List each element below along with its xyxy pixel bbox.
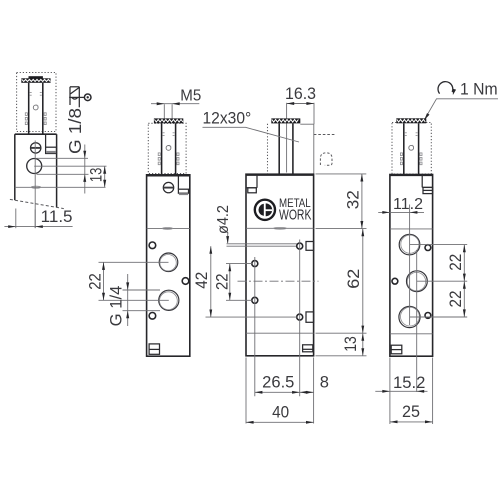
center hole H3c (252, 297, 258, 303)
dimension 22 (center) line (229, 264, 231, 301)
view2 stem (162, 123, 176, 175)
svg-text:1 Nm: 1 Nm (460, 80, 498, 98)
svg-text:22: 22 (86, 273, 104, 290)
view2 split line (147, 228, 190, 230)
view2 bottom-left latch rect (149, 344, 159, 354)
svg-text:G 1/4: G 1/4 (107, 286, 125, 327)
view2 step detail (178, 176, 188, 195)
view2 body outline (147, 175, 190, 356)
view2 port2 centerline ext (99, 299, 169, 301)
label G 1/4 (107, 286, 125, 327)
left view knurled knob (21, 76, 50, 83)
right port leader a (410, 244, 468, 246)
center ext lines for 22 (226, 264, 252, 301)
center pad square lower (306, 312, 314, 322)
dimension 13 (center) text (342, 336, 360, 352)
dimension 22 (right upper) text (447, 254, 465, 271)
view2 M5 ext lines (164, 104, 172, 118)
right small hole H4c (425, 313, 431, 319)
center ext line bottom right (316, 355, 367, 357)
view2 knurled knob (154, 118, 183, 123)
logo text METAL (279, 198, 311, 210)
svg-text:G 1/8: G 1/8 (65, 108, 85, 154)
label M5 (180, 88, 201, 105)
center bottom-right latch rect (303, 345, 313, 352)
center pad square upper (306, 242, 314, 251)
left view step detail (46, 135, 57, 154)
center hole H3b (252, 261, 258, 267)
dimension 40 text (272, 404, 289, 422)
G 1/8 arrow upper (83, 151, 86, 159)
view2 body top edge thick (147, 175, 190, 177)
Metal Work logo mark (255, 200, 275, 220)
label o4.2 (215, 205, 232, 234)
dimension 22 (right upper) arrows (463, 245, 466, 282)
label 1 Nm (460, 80, 498, 98)
center ghost top line (300, 123, 314, 125)
dimension 25 text (402, 403, 420, 421)
dimension 42 text (193, 272, 211, 289)
right small hole H4b (392, 278, 398, 284)
svg-text:11.2: 11.2 (393, 196, 423, 213)
dimension 11.5 line (4, 226, 72, 228)
dimension 13 line (104, 166, 106, 187)
left view bottom port ellipse (31, 186, 40, 188)
dimension 32 text (344, 190, 362, 209)
dimension 25 line (390, 421, 433, 423)
dimension 11.5 arrows (8, 225, 43, 228)
left view port circle G1/8 (27, 159, 42, 174)
left view vertical centerline (34, 141, 36, 229)
left view body bottom face line (15, 186, 106, 188)
view2 port1 centerline ext (99, 261, 169, 263)
center bottom ext lines (246, 358, 314, 424)
center ext line mid right (316, 228, 367, 230)
center split line (246, 227, 314, 229)
dimension 15.2 line (375, 390, 427, 392)
left view ghost solenoid outline (dashed) (17, 73, 56, 132)
dimension 22 (view2) arrows (102, 262, 105, 300)
dimension 13 text (88, 168, 106, 183)
dimension 62 arrows (361, 229, 364, 334)
right body top edge thick (390, 174, 433, 176)
view2 small hole H2b (182, 278, 189, 285)
right port circle P4c (399, 306, 420, 327)
left view break line (dashed slant) (10, 199, 64, 208)
torque symbol arc (438, 82, 456, 95)
view2 port circle P2a (159, 253, 178, 272)
svg-text:13: 13 (342, 336, 360, 352)
right bottom-left latch rect (391, 345, 402, 354)
right vertical centerline b (416, 250, 418, 392)
center stem (279, 123, 293, 174)
dimension 40 line (246, 421, 314, 423)
center hole centerline left (254, 257, 256, 396)
dimension 15.2 arrows (382, 390, 424, 393)
center ghost dashed hook (320, 153, 332, 165)
svg-text:26.5: 26.5 (262, 374, 294, 392)
1 Nm leader (425, 99, 498, 119)
center ghost left edge (dashed) (267, 124, 269, 174)
dimension 40 arrows (246, 421, 314, 424)
center hole centerline right (299, 240, 301, 397)
dimension 42 arrows (209, 246, 212, 317)
right bottom ext lines (390, 358, 433, 425)
view2 small hole H2a (149, 242, 156, 249)
G 1/4 leader line (127, 274, 129, 326)
center step detail (246, 175, 257, 193)
dimension 11.5 ext lines (16, 209, 35, 229)
dimension 22 (right upper) line (463, 245, 465, 282)
dimension 32 line (361, 174, 363, 229)
svg-text:13: 13 (88, 168, 106, 183)
dimension 62 text (345, 269, 363, 289)
manual override symbol (69, 87, 91, 108)
dimension 26.5 line (255, 391, 300, 393)
o4.2 leader arrow (226, 233, 229, 244)
dimension 22 (right lower) arrows (463, 281, 466, 317)
dimension 25 arrows (390, 420, 433, 423)
right split line lower (390, 333, 433, 335)
svg-text:12x30°: 12x30° (203, 110, 252, 128)
logo text WORK (279, 208, 312, 224)
right port leader b (417, 280, 467, 282)
dimension 11.2 line (378, 211, 424, 213)
center 16.3 ext lines (287, 103, 314, 124)
dimension 32 arrows (360, 174, 363, 229)
G 1/8 arrow lower (83, 174, 86, 182)
svg-text:25: 25 (402, 403, 420, 421)
center ghost right edge (313, 124, 315, 173)
right stem details (400, 133, 422, 165)
dimension 22 (right lower) text (447, 291, 465, 308)
dimension 26.5 arrows (255, 391, 300, 394)
svg-text:22: 22 (447, 291, 465, 308)
svg-text:32: 32 (344, 190, 362, 209)
dimension 8 line (300, 391, 314, 393)
svg-text:22: 22 (214, 274, 232, 291)
dimension 15.2 text (393, 374, 425, 392)
label G 1/8 (65, 108, 85, 154)
dimension 13 (center) arrows (361, 333, 364, 356)
center ext line top right (316, 173, 367, 175)
right vertical centerline a (409, 205, 411, 326)
right step detail (422, 175, 432, 193)
right ghost outline (dashed) (392, 123, 431, 175)
view2 ghost outline (dashed) (148, 123, 186, 173)
center 16.3 dim line (287, 103, 314, 105)
view2 M5 dim line (151, 103, 199, 105)
svg-text:WORK: WORK (279, 208, 312, 224)
center stem centerline (286, 110, 288, 173)
right port circle P4b (407, 271, 428, 292)
right split line upper (390, 228, 433, 230)
center hole H3d (297, 314, 303, 320)
left view port top tangent line (37, 157, 89, 159)
center ext line y317 (206, 316, 297, 318)
left view stem details (25, 93, 46, 125)
view2 screw S2 (163, 182, 173, 192)
svg-text:11.5: 11.5 (41, 208, 73, 226)
left view body outline (15, 134, 57, 207)
dimension 22 (right lower) line (463, 281, 465, 317)
center body top edge thick (246, 174, 314, 176)
center knurled knob (271, 118, 300, 123)
dimension 22 (view2) text (86, 273, 104, 290)
center 16.3 arrows (287, 102, 314, 105)
view2 port circle P2b (159, 290, 179, 310)
svg-text:M5: M5 (180, 88, 201, 105)
right stem (404, 123, 419, 174)
left view port centerline (34, 165, 106, 167)
svg-text:ø4.2: ø4.2 (215, 205, 232, 234)
dimension 22 (view2) line (103, 262, 105, 300)
left view screw S1 (31, 143, 41, 153)
svg-text:15.2: 15.2 (393, 374, 425, 392)
right port circle P4a (399, 234, 420, 255)
G 1/8 leader line (84, 145, 86, 194)
dimension 11.2 arrows (382, 211, 417, 214)
dimension 13 arrows (103, 166, 106, 187)
G 1/4 arrows (126, 282, 129, 318)
svg-text:8: 8 (320, 374, 329, 392)
center ext line low right (316, 332, 367, 334)
label 12x30 deg (203, 110, 252, 128)
center horizontal centerline (238, 280, 319, 282)
1 Nm leader arrow (424, 113, 429, 120)
dimension 22 (center) arrows (228, 264, 231, 301)
right small hole H4a (425, 245, 431, 251)
12x30 leader (203, 127, 300, 142)
left view port bottom tangent line (37, 173, 89, 175)
svg-text:16.3: 16.3 (285, 85, 316, 103)
label 16.3 (285, 85, 316, 103)
dimension 11.5 text (41, 208, 73, 226)
G 1/4 tangent lines (123, 290, 161, 311)
right body outline (390, 175, 433, 357)
dimension 62 line (362, 229, 364, 334)
right port leader c (410, 316, 468, 318)
dimension 22 (center) text (214, 274, 232, 291)
right knurled knob (396, 118, 426, 123)
center inner line y333 (246, 332, 314, 334)
dimension 11.2 text (393, 196, 423, 213)
dimension 8 arrows (300, 391, 314, 394)
svg-text:62: 62 (345, 269, 363, 289)
view2 stem details (158, 133, 179, 165)
center ghost dashed lead (314, 134, 336, 136)
center body outline (246, 174, 314, 356)
view2 M5 arrows (157, 102, 180, 105)
dimension 42 line (210, 246, 212, 317)
center hole H3a (297, 243, 303, 249)
svg-text:22: 22 (447, 254, 465, 271)
dimension 8 text (320, 374, 329, 392)
dimension 26.5 text (262, 374, 294, 392)
svg-text:42: 42 (193, 272, 211, 289)
view2 small hole H2c (149, 313, 156, 320)
svg-text:40: 40 (272, 404, 289, 422)
left view stem (29, 83, 43, 134)
center hole lines (o4.2 bore) (227, 244, 297, 246)
dimension 13 (center) line (362, 333, 364, 356)
